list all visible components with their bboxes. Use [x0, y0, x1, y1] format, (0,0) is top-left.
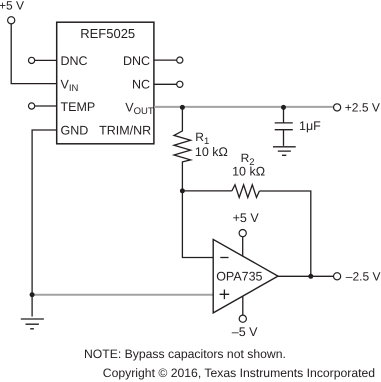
svg-text:TEMP: TEMP: [61, 100, 96, 114]
node junction on ground rail: [30, 292, 35, 297]
capacitor C1 1uF: [275, 107, 321, 145]
resistor R2: [232, 151, 265, 197]
node junction on VOUT line at R1: [180, 105, 185, 110]
svg-text:10 kΩ: 10 kΩ: [195, 145, 228, 159]
svg-text:Copyright © 2016, Texas Instru: Copyright © 2016, Texas Instruments Inco…: [103, 366, 375, 380]
wire VOUT to +2.5 V terminal: [154, 106, 333, 108]
svg-text:DNC: DNC: [123, 54, 150, 68]
wire NC stub: [154, 83, 177, 85]
node junction at output: [308, 274, 313, 279]
output terminal +2.5 V: [334, 101, 380, 115]
node junction feedback tap: [180, 188, 185, 193]
terminal circle DNC right: [177, 57, 183, 63]
terminal circle NC: [177, 81, 183, 87]
svg-text:+5 V: +5 V: [0, 0, 24, 13]
svg-text:DNC: DNC: [61, 54, 88, 68]
svg-text:10 kΩ: 10 kΩ: [232, 165, 265, 179]
svg-text:–2.5 V: –2.5 V: [346, 269, 381, 283]
svg-text:NC: NC: [132, 78, 150, 92]
power terminal -5 V (op-amp supply): [232, 315, 258, 339]
terminal circle DNC left: [29, 57, 35, 63]
svg-text:+5 V: +5 V: [233, 211, 260, 225]
svg-text:TRIM/NR: TRIM/NR: [99, 123, 151, 137]
svg-text:–5 V: –5 V: [232, 325, 258, 339]
wire op-amp to -5 V supply: [242, 296, 244, 315]
svg-text:NOTE: Bypass capacitors not sh: NOTE: Bypass capacitors not shown.: [84, 347, 286, 361]
svg-text:GND: GND: [61, 123, 89, 137]
power terminal +5 V (top left): [0, 0, 24, 24]
wire +5 V supply to op-amp: [242, 237, 244, 257]
wire R2 to op-amp output node: [259, 191, 310, 276]
wire ground rail to non-inverting input: [34, 294, 213, 296]
node junction on VOUT line at capacitor: [281, 105, 286, 110]
svg-text:+2.5 V: +2.5 V: [345, 101, 380, 115]
svg-text:OPA735: OPA735: [216, 270, 262, 284]
wire from +5 V terminal to VIN pin: [11, 24, 57, 84]
svg-text:1μF: 1μF: [299, 119, 321, 133]
wire DNC right stub: [154, 59, 177, 61]
terminal circle TEMP: [29, 103, 35, 109]
svg-text:REF5025: REF5025: [80, 26, 135, 41]
ground (below capacitor): [273, 147, 296, 156]
resistor R1: [174, 107, 228, 190]
wire feedback tap to R2: [182, 190, 231, 192]
IC U1 REF5025: [57, 22, 154, 144]
wire feedback tap to inverting input: [182, 191, 213, 258]
wire TEMP stub: [35, 105, 57, 107]
op-amp U2 OPA735: [213, 239, 278, 313]
wire GND pin to ground rail: [32, 130, 57, 317]
wire op-amp output: [278, 275, 333, 277]
power terminal +5 V (op-amp supply): [233, 211, 260, 237]
inverting input marker -: [220, 257, 228, 259]
output terminal -2.5 V: [334, 269, 381, 283]
wire DNC left stub: [35, 59, 57, 61]
ground (main, bottom left): [21, 319, 44, 329]
non-inverting input marker +: [220, 290, 230, 300]
